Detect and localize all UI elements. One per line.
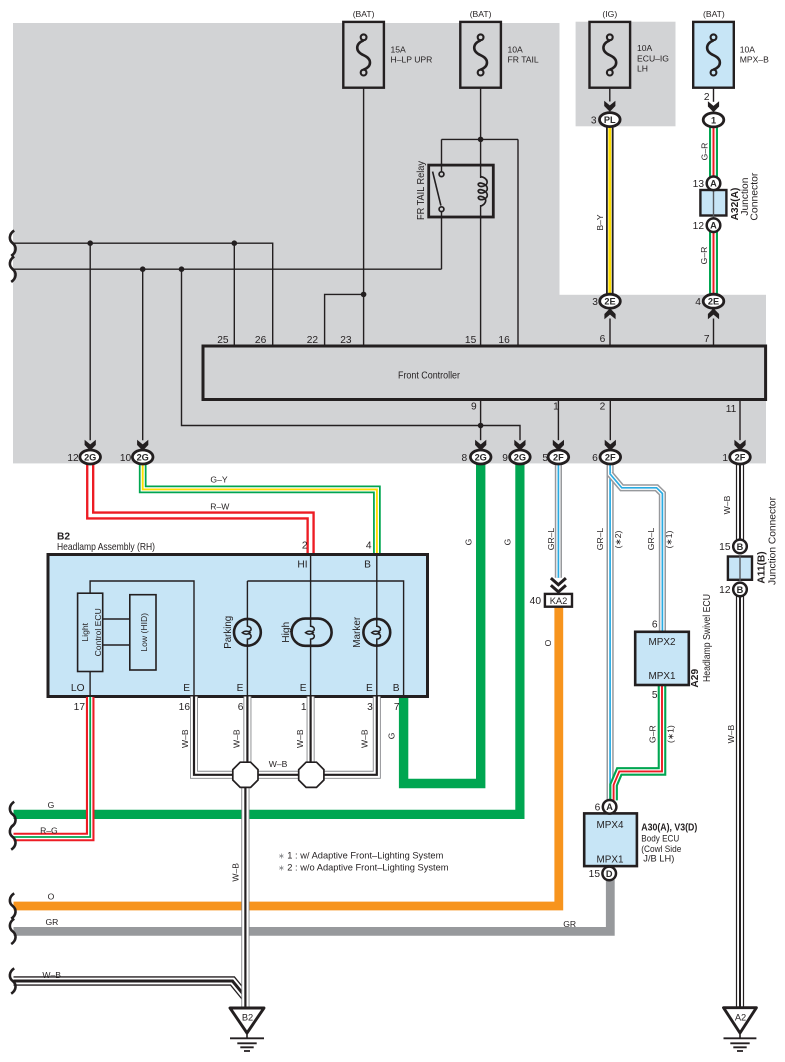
wire IG fuse to PL arrow — [609, 88, 611, 102]
svg-text:W–B: W–B — [232, 729, 242, 748]
svg-text:6: 6 — [595, 802, 601, 813]
svg-text:B: B — [364, 559, 371, 570]
svg-text:25: 25 — [217, 335, 229, 346]
svg-text:(BAT): (BAT) — [470, 9, 492, 19]
svg-text:A: A — [606, 802, 613, 812]
svg-text:7: 7 — [394, 702, 400, 713]
svg-text:GR: GR — [45, 917, 58, 927]
svg-text:HI: HI — [297, 559, 307, 570]
wire GR-L (*2) from 6 2F to Body ECU — [606, 464, 613, 801]
svg-text:15: 15 — [589, 869, 601, 880]
svg-text:16: 16 — [179, 702, 191, 713]
wire branch to pin 22 — [325, 294, 364, 346]
wire relay switch output to bus2 — [441, 212, 443, 270]
svg-text:2F: 2F — [735, 452, 746, 462]
svg-text:(BAT): (BAT) — [353, 9, 375, 19]
svg-text:1: 1 — [711, 115, 716, 125]
wire FC pin 6 up to 3 2E — [609, 319, 611, 347]
svg-text:B: B — [737, 585, 744, 595]
svg-text:KA2: KA2 — [550, 596, 568, 606]
wire GR-L (*1) branch to MPX2 — [610, 474, 662, 632]
wire W-B from A11(B) to ground A2 — [736, 596, 744, 1008]
svg-text:FR TAIL: FR TAIL — [508, 55, 539, 65]
svg-text:G: G — [48, 800, 55, 810]
arrow into PL — [604, 101, 615, 112]
wire G-R upper — [709, 126, 718, 177]
FC pin labels bottom — [471, 401, 737, 415]
svg-text:3: 3 — [367, 702, 373, 713]
svg-text:12: 12 — [67, 453, 79, 464]
svg-text:2G: 2G — [84, 452, 96, 462]
svg-text:B–Y: B–Y — [595, 214, 605, 231]
svg-text:B2: B2 — [242, 1012, 253, 1022]
connector 8 2G — [462, 450, 491, 464]
wire R-G — [14, 697, 91, 837]
svg-text:G: G — [464, 538, 474, 545]
headlamp pin numbers below — [74, 702, 400, 713]
svg-text:R–W: R–W — [210, 501, 230, 511]
svg-text:5: 5 — [652, 690, 658, 701]
svg-text:6: 6 — [600, 334, 606, 345]
svg-text:12: 12 — [719, 585, 731, 596]
wire relay coil to pin 15 — [480, 206, 482, 346]
wire W-B from 1 2F to A11(B) — [736, 464, 744, 540]
svg-text:Light: Light — [80, 622, 90, 641]
squiggle GR — [10, 919, 16, 944]
svg-text:9: 9 — [471, 401, 477, 412]
arrow up into 3 2E — [604, 308, 615, 319]
svg-text:1: 1 — [722, 453, 728, 464]
wire fuse H-LP UPR column to pin 23 — [363, 88, 365, 346]
wire FC pin 2 to 6 2F — [609, 400, 611, 441]
ECU A29 Headlamp Swivel ECU — [635, 594, 713, 701]
octagon joint right — [299, 762, 324, 787]
svg-text:11: 11 — [726, 404, 737, 415]
wire MPX-B fuse to arrow — [713, 88, 715, 102]
wire W-B octagon to ground B2 — [241, 786, 249, 1008]
svg-text:17: 17 — [74, 702, 86, 713]
svg-text:GR–L: GR–L — [646, 528, 656, 551]
wire G from 8 2G to headlamp pin 7 — [404, 464, 481, 784]
connector KA2 — [530, 594, 572, 607]
relay FR TAIL Relay — [416, 160, 493, 220]
svg-text:6: 6 — [238, 702, 244, 713]
wire bus1 to pin 25 — [233, 243, 235, 346]
svg-text:B: B — [737, 542, 744, 552]
svg-text:4: 4 — [695, 297, 701, 308]
svg-text:R–G: R–G — [40, 825, 58, 835]
Front Controller box — [203, 346, 766, 400]
wire relay switch feed — [441, 139, 443, 172]
svg-text:2E: 2E — [708, 297, 719, 307]
svg-text:(∗1): (∗1) — [666, 725, 676, 743]
arrows into oval row — [85, 440, 746, 451]
svg-text:A: A — [710, 221, 717, 231]
wire bus1 drop to 12 2G — [89, 243, 91, 440]
svg-text:3: 3 — [591, 115, 597, 126]
svg-text:W–B: W–B — [269, 759, 288, 769]
svg-text:6: 6 — [652, 620, 658, 631]
headlamp internal wires — [90, 556, 404, 697]
svg-text:PL: PL — [604, 115, 616, 125]
svg-text:W–B: W–B — [42, 970, 61, 980]
svg-text:W–B: W–B — [180, 729, 190, 748]
svg-text:2: 2 — [600, 401, 606, 412]
svg-text:26: 26 — [255, 335, 267, 346]
wire G bus from 9 2G to left edge — [14, 464, 520, 815]
svg-text:16: 16 — [498, 335, 510, 346]
svg-text:23: 23 — [340, 335, 352, 346]
bulb High — [281, 618, 332, 646]
connector 4 2E — [695, 294, 724, 308]
svg-text:13: 13 — [693, 179, 705, 190]
svg-text:(∗2): (∗2) — [613, 531, 623, 549]
svg-text:High: High — [281, 622, 292, 643]
svg-text:MPX4: MPX4 — [597, 820, 624, 831]
notes adaptive front-lighting — [278, 850, 449, 872]
svg-text:2: 2 — [302, 540, 308, 551]
junction dot bus1 x90 — [87, 240, 93, 246]
svg-text:(BAT): (BAT) — [703, 9, 725, 19]
connector 12 2G — [67, 450, 100, 464]
svg-text:ECU–IG: ECU–IG — [637, 53, 669, 63]
svg-text:W–B: W–B — [231, 863, 241, 882]
connector 10 2G — [120, 450, 153, 464]
svg-text:2G: 2G — [137, 452, 149, 462]
wire W-B headlamp pin 3 to octagon — [323, 697, 377, 775]
svg-text:E: E — [237, 683, 244, 694]
ground B2 — [230, 1008, 264, 1051]
svg-text:MPX–B: MPX–B — [740, 55, 769, 65]
bulb Parking — [223, 615, 261, 648]
svg-text:Marker: Marker — [352, 616, 363, 648]
svg-text:2F: 2F — [553, 452, 564, 462]
svg-text:12: 12 — [693, 221, 705, 232]
svg-text:W–B: W–B — [722, 495, 732, 514]
wire bus1 — [14, 243, 273, 346]
svg-text:Control ECU: Control ECU — [93, 608, 103, 656]
wire B-Y — [606, 127, 614, 296]
svg-text:∗ 1 : w/ Adaptive Front–Lighti: ∗ 1 : w/ Adaptive Front–Lighting System — [278, 850, 444, 860]
wire FC pin 9 to 8 2G — [480, 400, 482, 441]
connector PL — [591, 113, 620, 127]
svg-text:O: O — [48, 892, 55, 902]
svg-text:G: G — [387, 732, 397, 739]
wire W-B between octagons — [257, 771, 300, 779]
svg-text:1: 1 — [553, 401, 559, 412]
svg-text:15: 15 — [719, 542, 731, 553]
svg-text:Front Controller: Front Controller — [398, 370, 461, 381]
bulb Marker — [352, 616, 390, 648]
svg-text:G: G — [503, 538, 513, 545]
svg-text:Low (HID): Low (HID) — [139, 613, 149, 652]
wire GR from Body ECU to left edge — [14, 880, 611, 932]
svg-text:MPX1: MPX1 — [649, 671, 676, 682]
connector 5 2F — [542, 450, 568, 464]
headlamp pin labels bottom inside — [71, 683, 400, 694]
svg-text:A29: A29 — [690, 669, 701, 688]
wire relay top horizontal — [442, 138, 519, 140]
svg-text:(IG): (IG) — [602, 9, 617, 19]
svg-text:A30(A), V3(D): A30(A), V3(D) — [641, 823, 697, 834]
svg-text:∗ 2 : w/o Adaptive Front–Light: ∗ 2 : w/o Adaptive Front–Lighting System — [278, 863, 449, 873]
FC pin labels top — [217, 334, 710, 346]
squiggle W-B — [10, 968, 16, 993]
gray panel main — [13, 23, 560, 463]
svg-text:8: 8 — [462, 453, 468, 464]
octagon joint left — [233, 762, 258, 787]
squiggle G — [10, 802, 16, 827]
fuse 15A H-LP UPR — [343, 9, 432, 88]
svg-text:A11(B): A11(B) — [756, 551, 767, 583]
fuse 10A MPX-B — [693, 9, 769, 88]
svg-text:GR: GR — [563, 919, 576, 929]
svg-text:B: B — [393, 683, 400, 694]
svg-text:E: E — [183, 683, 190, 694]
svg-text:22: 22 — [307, 335, 319, 346]
gray panel bottom-right — [559, 295, 766, 464]
svg-text:9: 9 — [502, 453, 508, 464]
svg-text:5: 5 — [542, 453, 548, 464]
svg-text:15A: 15A — [391, 44, 407, 54]
svg-text:W–B: W–B — [295, 729, 305, 748]
svg-text:1: 1 — [301, 702, 307, 713]
svg-text:2E: 2E — [604, 297, 615, 307]
svg-text:G–R: G–R — [648, 725, 658, 743]
svg-text:J/B LH): J/B LH) — [643, 854, 674, 864]
svg-text:2G: 2G — [475, 452, 487, 462]
svg-text:GR–L: GR–L — [595, 528, 605, 551]
chevron arrows into KA2 — [551, 578, 566, 592]
junction dot pin9 cross — [478, 423, 484, 429]
squiggle O — [10, 893, 16, 918]
wire bus2 drop to 10 2G — [142, 269, 144, 440]
svg-text:D: D — [606, 869, 613, 879]
svg-text:Connector: Connector — [749, 172, 760, 221]
svg-text:O: O — [543, 639, 553, 646]
wire W-B bus bottom left — [14, 981, 246, 997]
svg-text:2F: 2F — [605, 452, 616, 462]
svg-text:LH: LH — [637, 64, 648, 74]
junction dot bus2 x142 — [140, 266, 146, 272]
connector 3 2E — [592, 294, 620, 308]
svg-text:2G: 2G — [514, 452, 526, 462]
fuse 10A ECU-IG LH — [590, 9, 670, 88]
svg-text:LO: LO — [71, 683, 85, 694]
wire R-W — [90, 464, 310, 555]
wire G-R from MPX1 pin5 to Body ECU — [614, 686, 662, 800]
wire G-R lower — [709, 231, 718, 294]
svg-text:MPX1: MPX1 — [597, 854, 624, 865]
ground A2 — [724, 1008, 757, 1051]
wire FC pin 11 to 1 2F — [739, 400, 741, 441]
Light Control ECU box — [78, 593, 103, 671]
wire FC pin 7 up to 4 2E — [713, 319, 715, 347]
fuse 10A FR TAIL — [460, 9, 539, 88]
Low (HID) box — [130, 595, 156, 670]
wire bus2 — [14, 268, 442, 270]
wire W-B headlamp pin 6 to octagon — [243, 697, 251, 765]
svg-text:G–R: G–R — [700, 143, 710, 161]
wire bus2 long drop to 9 2G — [182, 269, 521, 440]
connector 1 (MPX-B) — [703, 92, 724, 127]
wire GR-L from 5 2F to KA2 — [555, 464, 562, 578]
svg-text:Junction Connector: Junction Connector — [767, 496, 778, 585]
svg-text:H–LP UPR: H–LP UPR — [391, 55, 433, 65]
svg-text:G–Y: G–Y — [210, 475, 227, 485]
svg-text:FR TAIL Relay: FR TAIL Relay — [416, 160, 427, 220]
arrow into oval 1 — [708, 101, 719, 112]
connector 1 2F — [722, 450, 750, 464]
svg-text:W–B: W–B — [360, 729, 370, 748]
svg-text:10A: 10A — [637, 43, 653, 53]
wire W-B headlamp pin 1 to octagon — [307, 697, 315, 765]
rotated wire labels — [180, 495, 736, 881]
svg-text:7: 7 — [704, 334, 710, 345]
squiggle R-G — [10, 824, 16, 849]
gray panel IG fuse — [576, 22, 676, 127]
svg-text:10A: 10A — [508, 44, 524, 54]
svg-text:6: 6 — [592, 453, 598, 464]
svg-text:E: E — [300, 683, 307, 694]
svg-text:GR–L: GR–L — [546, 528, 556, 551]
junction connector A11(B) — [719, 496, 778, 596]
svg-text:15: 15 — [465, 335, 477, 346]
wire O (orange) from KA2 to left edge — [14, 607, 559, 906]
svg-text:Body ECU: Body ECU — [641, 834, 679, 844]
svg-text:A: A — [710, 179, 717, 189]
wire G-Y — [143, 464, 377, 555]
ECU A30(A) V3(D) Body ECU — [584, 800, 697, 880]
connector 6 2F — [592, 450, 620, 464]
junction dot bus2 x181 — [179, 266, 185, 272]
svg-text:Headlamp Swivel ECU: Headlamp Swivel ECU — [702, 594, 713, 682]
connector 9 2G — [502, 450, 530, 464]
junction dot relay feed — [478, 137, 484, 143]
svg-text:A2: A2 — [735, 1012, 746, 1022]
svg-text:10A: 10A — [740, 44, 756, 54]
svg-text:4: 4 — [366, 540, 372, 551]
junction connector A32(A) — [693, 172, 761, 232]
svg-text:Headlamp Assembly (RH): Headlamp Assembly (RH) — [57, 542, 155, 553]
wire W-B headlamp pin 16 to octagon — [194, 697, 234, 775]
headlamp assembly B2 box — [48, 532, 428, 697]
svg-text:(∗1): (∗1) — [664, 531, 674, 549]
svg-text:40: 40 — [530, 596, 542, 607]
svg-text:G–R: G–R — [699, 247, 709, 265]
svg-text:Parking: Parking — [223, 615, 234, 648]
svg-text:(Cowl Side: (Cowl Side — [641, 844, 681, 854]
squiggle bus1 — [10, 231, 16, 256]
junction dot H-LP column — [361, 292, 367, 298]
squiggle bus2 — [10, 257, 16, 282]
svg-text:W–B: W–B — [726, 725, 736, 744]
junction dot bus1 x234 — [232, 240, 238, 246]
svg-text:2: 2 — [704, 92, 710, 103]
wire to pin 16 — [517, 139, 519, 346]
arrow up into 4 2E — [708, 308, 719, 319]
svg-text:MPX2: MPX2 — [649, 637, 676, 648]
svg-text:E: E — [366, 683, 373, 694]
wire FC pin 1 to 5 2F — [557, 400, 559, 441]
svg-text:3: 3 — [592, 297, 598, 308]
svg-text:10: 10 — [120, 453, 132, 464]
wire fuse FR TAIL column above relay — [480, 88, 482, 177]
